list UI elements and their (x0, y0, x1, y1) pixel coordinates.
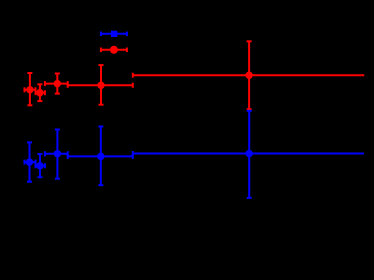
blue point B1 (25, 142, 36, 181)
red point R1 (25, 73, 36, 105)
red series data points (25, 41, 365, 109)
red point R5 (133, 41, 364, 109)
legend entry: red series sample (circle marker with x-error bar) (101, 46, 127, 54)
blue point B3 (45, 130, 68, 179)
blue point B2 (36, 154, 45, 177)
blue series data points (25, 111, 364, 198)
blue point B5 (133, 111, 364, 198)
legend entry: blue series sample (square marker with x-error bar) (101, 31, 127, 37)
red point R4 (68, 65, 133, 105)
blue point B4 (68, 127, 133, 186)
red point R2 (36, 84, 45, 101)
red point R3 (45, 74, 68, 94)
